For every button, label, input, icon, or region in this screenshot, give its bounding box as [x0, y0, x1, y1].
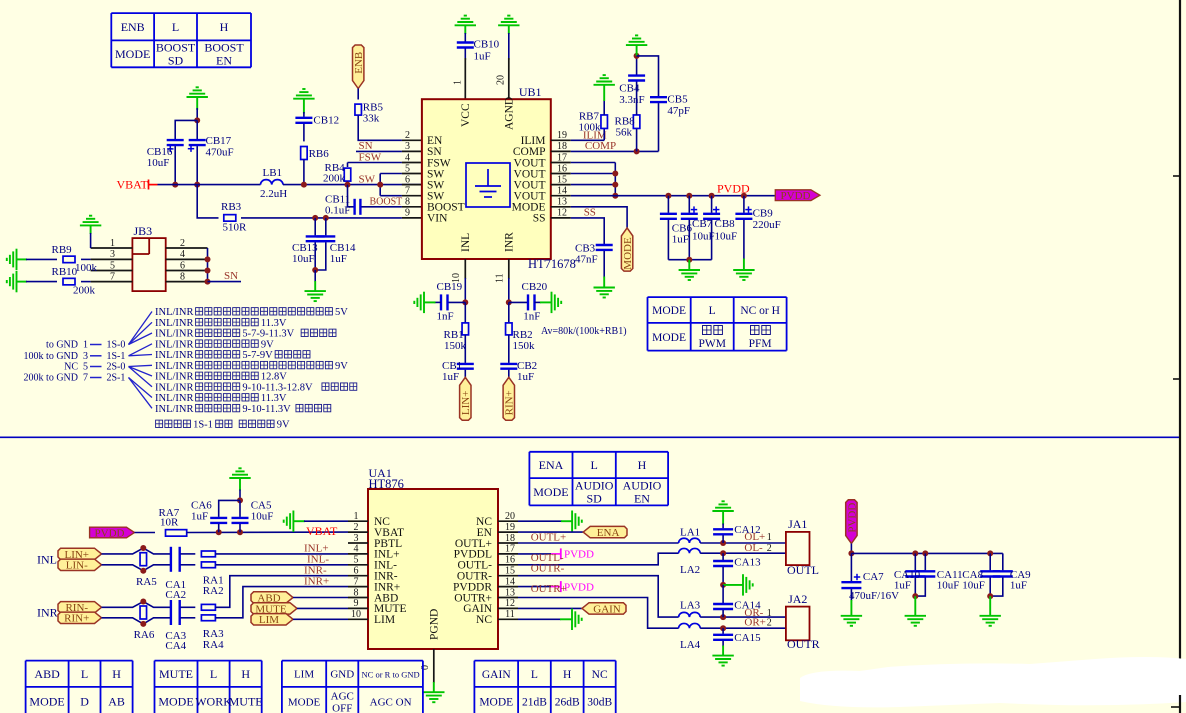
- label CA7: [863, 571, 884, 583]
- net label VBAT bottom: [306, 524, 338, 538]
- label OUTL: [787, 563, 819, 577]
- sheet border corner tick: [1171, 706, 1180, 708]
- ground above CB4: [626, 35, 647, 45]
- junction PVDD CA7: [848, 550, 854, 556]
- svg-text:AGC ON: AGC ON: [370, 696, 412, 708]
- wire LA2 to JA1 pin2: [700, 552, 786, 554]
- wire SN out: [208, 281, 242, 283]
- note line6: [196, 361, 333, 368]
- designator JA1: [788, 517, 807, 531]
- port LIN+ flag: [460, 377, 473, 420]
- svg-text:11.3V: 11.3V: [261, 318, 287, 329]
- value RA7 10R: [160, 517, 179, 529]
- svg-text:L: L: [210, 667, 217, 681]
- svg-text:L: L: [531, 669, 538, 681]
- net label OUTL+: [531, 531, 567, 543]
- UA1 right pin names: [453, 516, 493, 626]
- svg-text:INL/INR: INL/INR: [155, 361, 194, 372]
- svg-text:17: 17: [505, 544, 515, 555]
- junction CA8/CA9 gnd: [987, 593, 993, 599]
- note conclusion: [156, 420, 191, 427]
- svg-text:10: 10: [351, 609, 361, 620]
- junction VOUT 14: [612, 193, 618, 199]
- wire CA13 bottom: [722, 567, 724, 585]
- table ENA modes: [529, 452, 668, 506]
- svg-text:OFF: OFF: [332, 702, 352, 713]
- wire pin13 MODE: [571, 207, 627, 228]
- svg-text:SS: SS: [533, 213, 546, 225]
- sheet border tick 2: [1173, 378, 1180, 380]
- wire CA8 down: [989, 553, 991, 570]
- polarity + CB8: [713, 206, 719, 212]
- svg-text:1uF: 1uF: [1010, 579, 1027, 591]
- svg-text:L: L: [81, 667, 88, 681]
- label CA8: [962, 569, 983, 581]
- svg-text:10uF: 10uF: [292, 253, 315, 265]
- wire to CB16 top: [175, 120, 197, 139]
- wire RB2 to CB2: [508, 335, 510, 363]
- wire CB14 bottom: [315, 242, 326, 270]
- svg-text:CA7: CA7: [863, 571, 884, 583]
- label LA1: [680, 527, 700, 539]
- wire pin7 SW: [380, 195, 402, 197]
- svg-text:ENB: ENB: [353, 52, 365, 74]
- sheet border vertical: [1179, 0, 1181, 668]
- svg-text:NC: NC: [476, 614, 492, 626]
- wire INR to RB2: [508, 302, 510, 323]
- UB1 right pin names: [512, 135, 546, 225]
- label CA2: [165, 589, 186, 601]
- resistor RB4: [344, 168, 351, 181]
- label LA3: [680, 600, 701, 612]
- svg-text:INL/INR: INL/INR: [155, 329, 194, 340]
- junction RB4 SW: [345, 182, 351, 188]
- svg-text:20: 20: [496, 75, 507, 85]
- wire CB20 gnd green: [540, 301, 551, 303]
- svg-text:INL/INR: INL/INR: [155, 307, 194, 318]
- ground below CB7: [679, 270, 700, 280]
- svg-text:30dB: 30dB: [587, 696, 612, 708]
- wire CB12 to RB6: [303, 124, 305, 142]
- svg-text:47pF: 47pF: [667, 105, 690, 117]
- pin number 20: [496, 75, 507, 85]
- svg-text:1uF: 1uF: [517, 371, 534, 383]
- svg-text:H: H: [638, 458, 647, 472]
- svg-text:VBAT: VBAT: [306, 524, 338, 538]
- value CB6 1uF: [672, 234, 689, 246]
- svg-text:6: 6: [180, 260, 185, 271]
- label RB5: [363, 102, 384, 114]
- capacitor CB19: [441, 294, 448, 310]
- value RB2 150k: [513, 340, 536, 352]
- net label OL-: [744, 542, 763, 554]
- junction RA5 bottom: [140, 568, 146, 574]
- wire OUTR+ route: [518, 598, 679, 629]
- svg-text:9: 9: [354, 598, 359, 609]
- junction CA6 tap: [216, 529, 222, 535]
- wire PGND gnd green: [433, 682, 435, 692]
- svg-text:5-7-9-11.3V: 5-7-9-11.3V: [242, 329, 294, 340]
- wire CA10 bottom: [914, 578, 916, 597]
- value RB3 510R: [223, 222, 248, 234]
- svg-text:1uF: 1uF: [672, 234, 689, 246]
- net label INR-: [304, 564, 327, 576]
- wire CA7 gnd: [850, 589, 852, 601]
- svg-text:470uF/16V: 470uF/16V: [849, 590, 899, 602]
- UA1 left pin stubs 1-10: [348, 521, 368, 619]
- wire pin14 PVDDR: [518, 586, 551, 588]
- label CB1: [442, 360, 462, 372]
- svg-text:12: 12: [557, 208, 567, 219]
- junction CA14 OR-: [720, 614, 726, 620]
- resistor RB10: [63, 278, 75, 285]
- svg-text:INL/INR: INL/INR: [155, 318, 194, 329]
- value CB5 47pF: [667, 105, 690, 117]
- label RB2: [513, 329, 533, 341]
- svg-text:14: 14: [505, 576, 515, 587]
- svg-text:MODE: MODE: [652, 332, 686, 344]
- svg-text:100k: 100k: [579, 122, 602, 134]
- connector JA2 body: [786, 607, 810, 641]
- svg-text:18: 18: [505, 533, 515, 544]
- svg-text:AGC: AGC: [331, 690, 354, 702]
- capacitor CA5: [232, 518, 249, 523]
- wire RA3 to INR- pin6: [216, 576, 349, 608]
- svg-text:6: 6: [354, 566, 359, 577]
- label CB8: [715, 218, 736, 230]
- designator UB1: [519, 85, 542, 99]
- wire CA15 bottom: [722, 641, 724, 647]
- svg-text:100k to GND: 100k to GND: [24, 351, 78, 362]
- svg-text:SD: SD: [586, 491, 602, 505]
- wire RA2 to INL- pin5: [216, 564, 349, 566]
- designator JA2: [788, 592, 807, 606]
- value CA11 10uF: [937, 579, 960, 591]
- svg-text:2: 2: [354, 522, 359, 533]
- svg-text:9-10-11.3-12.8V: 9-10-11.3-12.8V: [242, 382, 313, 393]
- wire pin1 NC: [304, 520, 348, 522]
- svg-text:INL: INL: [460, 233, 472, 252]
- junction CB join gnd: [686, 257, 692, 263]
- label CB7: [692, 218, 713, 230]
- svg-text:14: 14: [557, 186, 567, 197]
- net label INR: [37, 606, 58, 620]
- svg-text:RB3: RB3: [221, 201, 242, 213]
- svg-text:47nF: 47nF: [575, 254, 598, 266]
- svg-text:CA15: CA15: [734, 632, 761, 644]
- capacitor CB9: [735, 214, 752, 219]
- svg-text:SD: SD: [168, 54, 184, 68]
- svg-text:10uF: 10uF: [715, 231, 738, 243]
- wire RB7 gnd green: [603, 85, 605, 101]
- JB3 left pins 1,3,5,7: [91, 248, 133, 282]
- svg-text:200k: 200k: [73, 285, 96, 297]
- svg-text:SN: SN: [224, 270, 238, 282]
- net label OUTL-: [531, 552, 564, 564]
- svg-text:150k: 150k: [444, 340, 467, 352]
- wire CA9 down: [1002, 553, 1004, 570]
- svg-text:OUTR+: OUTR+: [531, 583, 567, 595]
- capacitor CA7: [841, 582, 861, 588]
- ground left of RB9: [7, 249, 17, 270]
- svg-text:4: 4: [405, 152, 410, 163]
- svg-text:MODE: MODE: [288, 696, 321, 708]
- svg-text:10uF: 10uF: [962, 579, 985, 591]
- svg-text:6: 6: [405, 174, 410, 185]
- ground below CB13/CB14: [305, 291, 326, 301]
- note line8: [155, 382, 194, 393]
- wire CB11 to pin8 BOOST: [361, 206, 402, 208]
- wire CB16 to VBAT rail: [174, 146, 176, 185]
- wire RB9 to pin3: [81, 258, 91, 260]
- port PVDD flag bottom: [846, 500, 859, 544]
- wire pin4 FSW: [348, 162, 402, 164]
- value CA6 1uF: [191, 511, 208, 523]
- svg-text:510R: 510R: [223, 222, 248, 234]
- svg-text:11: 11: [505, 609, 515, 620]
- net label OUTR+: [531, 583, 567, 595]
- svg-text:BOOST: BOOST: [204, 41, 244, 55]
- svg-text:9V: 9V: [277, 420, 290, 431]
- net label INL-: [307, 554, 329, 566]
- label CA5: [251, 499, 272, 511]
- capacitor CB17: [189, 140, 206, 145]
- wire CA14 top: [722, 585, 724, 603]
- junction CB9 tap: [741, 193, 747, 199]
- label RA5: [136, 576, 157, 588]
- wire CA4 to RA4: [181, 617, 196, 619]
- net label SN: [359, 140, 373, 152]
- capacitor CA9: [993, 571, 1013, 576]
- wire mid gnd green: [723, 584, 742, 586]
- note line10: [155, 404, 194, 415]
- ground above CA5: [229, 468, 250, 478]
- port RIN+ flag h: [58, 612, 102, 625]
- wire RA7 to VBAT pin: [187, 531, 348, 533]
- wire RB8 to CB4: [636, 81, 638, 116]
- resistor RB7: [601, 115, 608, 129]
- svg-text:L: L: [590, 458, 597, 472]
- net label OR+: [744, 617, 765, 629]
- note conclusion c: [239, 420, 274, 427]
- svg-text:INR+: INR+: [304, 575, 329, 587]
- wire INL to RB1: [464, 302, 466, 323]
- svg-text:16: 16: [557, 163, 567, 174]
- svg-text:PVDD: PVDD: [846, 503, 858, 533]
- note conclusion latin3: [277, 420, 290, 431]
- capacitor CA15: [713, 635, 733, 640]
- svg-text:H: H: [220, 20, 229, 34]
- junction CA5 tap: [237, 529, 243, 535]
- wire CA13 vertical: [722, 553, 724, 560]
- svg-text:1S-0: 1S-0: [107, 340, 126, 351]
- junction RA5 top: [140, 545, 146, 551]
- net label FSW: [359, 151, 382, 163]
- label RB1: [444, 329, 464, 341]
- wire INR down: [508, 278, 510, 302]
- polarity + CB17: [188, 146, 194, 152]
- svg-text:5: 5: [405, 163, 410, 174]
- svg-text:8: 8: [405, 197, 410, 208]
- capacitor CB5: [650, 97, 667, 102]
- wire CA11 down: [924, 553, 926, 570]
- svg-text:CA4: CA4: [165, 640, 186, 652]
- label CA3: [165, 630, 186, 642]
- wire VBAT down to RB3: [197, 185, 218, 218]
- svg-text:MUTE: MUTE: [159, 667, 193, 681]
- value CB7 10uF: [692, 231, 715, 243]
- UB1 left pin stubs 2-9: [402, 140, 422, 218]
- wire pin17 PVDDL: [518, 553, 551, 555]
- svg-text:16: 16: [505, 555, 515, 566]
- value RB5 33k: [363, 113, 380, 125]
- capacitor CA13: [713, 561, 733, 566]
- wire CB5 branch: [637, 56, 659, 96]
- svg-text:HT71678: HT71678: [528, 257, 576, 271]
- note line7: [155, 372, 194, 383]
- wire CA8 gnd green: [989, 596, 991, 616]
- sheet border tick 1: [1173, 175, 1180, 177]
- wire CA11 bottom: [915, 578, 925, 597]
- junction CB14 tap: [323, 215, 329, 221]
- label LA2: [680, 564, 700, 576]
- svg-text:RB9: RB9: [52, 244, 73, 256]
- svg-text:7: 7: [83, 373, 88, 384]
- svg-text:CB17: CB17: [206, 135, 232, 147]
- label LA4: [680, 639, 701, 651]
- white-out swath: [800, 657, 1186, 707]
- ground above CB12: [293, 89, 314, 99]
- label CA9: [1010, 569, 1031, 581]
- svg-text:PVDD: PVDD: [781, 190, 811, 202]
- label CA4: [165, 640, 186, 652]
- power port PVDD arrow: [775, 190, 820, 202]
- label RB10: [52, 266, 78, 278]
- svg-text:12: 12: [505, 598, 515, 609]
- capacitor CA1 CA2: [171, 547, 180, 572]
- svg-text:RA4: RA4: [203, 639, 224, 651]
- net label PVDD red: [717, 182, 750, 196]
- svg-text:ENA: ENA: [597, 527, 620, 539]
- value CA8 10uF: [962, 579, 985, 591]
- wire CA9 bottom: [990, 578, 1003, 597]
- polarity + CA7: [854, 574, 860, 580]
- wire CA6 bottom: [218, 524, 220, 532]
- svg-text:1S-1: 1S-1: [193, 420, 213, 431]
- svg-text:H: H: [112, 667, 121, 681]
- junction CA10 tap: [912, 550, 918, 556]
- svg-text:CB12: CB12: [313, 115, 339, 127]
- svg-text:PWM: PWM: [698, 338, 725, 350]
- wire MUTE to pin9: [297, 607, 348, 609]
- wire CA3 to RA3: [181, 606, 196, 608]
- svg-text:CB8: CB8: [715, 218, 736, 230]
- capacitor CB12: [295, 118, 312, 123]
- junction CA13 OL-: [720, 550, 726, 556]
- svg-text:INR: INR: [37, 606, 58, 620]
- port RIN+ flag: [503, 377, 516, 420]
- label CB10: [474, 39, 500, 51]
- wire OUTR- route: [518, 576, 679, 617]
- note line1: [335, 307, 348, 318]
- wire CB4 to gnd node: [636, 56, 638, 75]
- junction CB7 tap: [686, 193, 692, 199]
- svg-text:AUDIO: AUDIO: [575, 478, 614, 492]
- wire green tail: [314, 281, 316, 291]
- note line4: [261, 339, 274, 350]
- ground above CA12: [712, 501, 733, 511]
- label CA10: [894, 569, 921, 581]
- net label OL+: [744, 531, 765, 543]
- value RB4 200k: [323, 173, 346, 185]
- svg-text:5: 5: [354, 555, 359, 566]
- ground mid CA13/CA14: [743, 574, 753, 595]
- svg-text:33k: 33k: [363, 113, 380, 125]
- capacitor CB6: [660, 214, 677, 219]
- label OUTR: [787, 637, 820, 651]
- capacitor CB13: [306, 236, 325, 241]
- UA1 left pin numbers: [351, 511, 361, 620]
- wire gnd-CB10 navy: [464, 33, 466, 42]
- svg-text:7: 7: [110, 271, 115, 282]
- connector JA1 body: [786, 532, 810, 565]
- wire CA8 bottom: [989, 578, 991, 597]
- svg-text:9V: 9V: [335, 361, 348, 372]
- UB1 exposed pad ground symbol: [466, 163, 510, 207]
- port MODE flag: [621, 228, 634, 271]
- wire to RB10: [26, 281, 57, 283]
- svg-text:19: 19: [505, 522, 515, 533]
- junction CA15 OR+: [720, 625, 726, 631]
- svg-text:INL/INR: INL/INR: [155, 382, 194, 393]
- pin 20 AGND stub: [508, 58, 510, 99]
- wire CB6 bottom: [667, 220, 669, 260]
- svg-text:CA12: CA12: [734, 524, 760, 536]
- svg-text:1uF: 1uF: [474, 51, 491, 63]
- svg-text:20: 20: [505, 511, 515, 522]
- wire RB4 to SW: [347, 181, 349, 184]
- svg-text:AGND: AGND: [504, 97, 516, 130]
- svg-text:1: 1: [453, 80, 464, 85]
- UB1 left pin numbers: [405, 130, 410, 219]
- svg-text:JA2: JA2: [788, 592, 807, 606]
- wire gnd RB9 green: [17, 258, 28, 260]
- value CB16 10uF: [147, 157, 170, 169]
- ground left of RB10: [7, 271, 17, 292]
- port ENB flag: [353, 45, 366, 89]
- wire pin12 SS: [571, 218, 604, 244]
- value CB4 3.3nF: [619, 94, 644, 106]
- label RA1: [203, 575, 224, 587]
- label CA6: [191, 499, 212, 511]
- wire CB17 to VBAT rail: [196, 146, 198, 185]
- value RB9 100k: [75, 262, 98, 274]
- label CB12: [313, 115, 339, 127]
- note line5: [155, 350, 194, 361]
- resistor RA4: [201, 615, 215, 621]
- UB1 pin name INL: [460, 233, 472, 252]
- wire JB3 pin2 bus: [207, 248, 209, 282]
- svg-text:200k: 200k: [323, 173, 346, 185]
- label CB14: [330, 242, 356, 254]
- capacitor CB8: [703, 214, 720, 219]
- wire gnd RB10 green: [17, 281, 28, 283]
- svg-text:1: 1: [767, 532, 772, 543]
- svg-text:2: 2: [767, 618, 772, 629]
- svg-text:INL/INR: INL/INR: [155, 404, 194, 415]
- svg-text:PGND: PGND: [429, 609, 441, 640]
- resistor RB5: [355, 104, 362, 115]
